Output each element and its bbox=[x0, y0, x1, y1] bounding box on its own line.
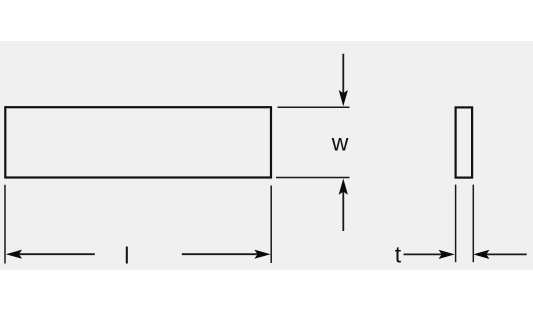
t dimension left-pointing arrow bbox=[473, 250, 527, 259]
svg-text:l: l bbox=[124, 242, 129, 268]
l dimension left arrow (points left) bbox=[6, 250, 95, 259]
t dimension right-pointing arrow bbox=[404, 250, 455, 259]
w dimension up arrow bbox=[339, 179, 348, 232]
t right extension line bbox=[472, 185, 474, 263]
side view rectangle (bar thickness) bbox=[456, 107, 473, 177]
w top extension line bbox=[278, 106, 350, 108]
front view rectangle (bar, length x width) bbox=[5, 107, 271, 177]
l dimension right arrow (points right) bbox=[182, 250, 271, 259]
gray drawing background band bbox=[0, 41, 533, 270]
svg-text:t: t bbox=[395, 242, 402, 268]
w dimension down arrow bbox=[339, 54, 348, 107]
w bottom extension line bbox=[276, 177, 350, 179]
svg-text:w: w bbox=[331, 129, 349, 155]
t left extension line bbox=[455, 185, 457, 263]
l right extension line bbox=[270, 186, 272, 264]
l left extension line bbox=[4, 185, 6, 264]
